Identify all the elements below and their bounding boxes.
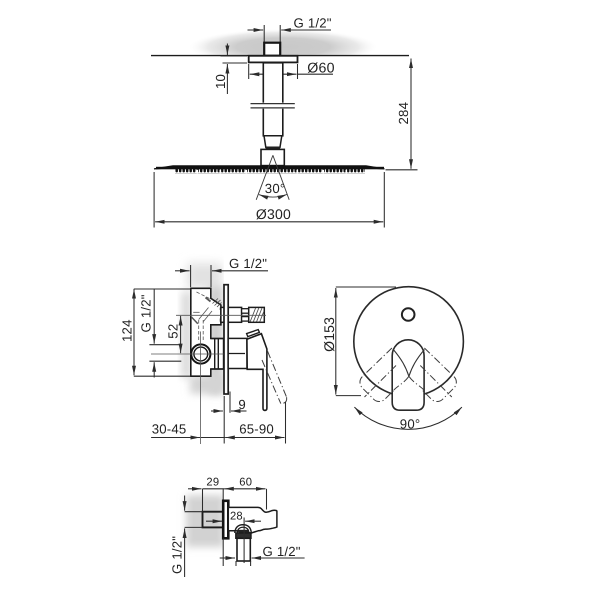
90° arc (354, 407, 462, 429)
small circle (402, 308, 415, 321)
shower plate (154, 166, 385, 169)
svg-text:284: 284 (396, 102, 411, 125)
shaft (263, 63, 283, 136)
big circle (354, 287, 464, 397)
valve body (191, 288, 224, 376)
dim Ø300 (154, 172, 384, 228)
svg-text:124: 124 (120, 319, 135, 342)
svg-text:90°: 90° (400, 416, 421, 431)
cartridge through wall (211, 339, 224, 370)
dims 30-45 / 65-90 (151, 396, 285, 444)
svg-text:Ø153: Ø153 (321, 317, 337, 352)
holder arm + knob (228, 507, 277, 533)
supply pipe (203, 512, 224, 528)
svg-text:52: 52 (166, 324, 181, 339)
inlet circle (191, 344, 210, 363)
boss notches (220, 308, 222, 311)
lever tab (247, 330, 260, 337)
collar lines (251, 103, 295, 105)
spray cone (256, 155, 289, 200)
dashed lever (open position) (262, 351, 287, 404)
svg-text:Ø300: Ø300 (256, 206, 291, 222)
top pipe (221, 307, 242, 322)
dim G 1/2 bottom (220, 538, 305, 566)
dim G 1/2 left (149, 289, 181, 378)
dim 9 (211, 392, 247, 413)
dims 29 / 60 (188, 489, 267, 512)
wall gray band (182, 263, 224, 394)
flange (249, 56, 298, 63)
inner solid arcs of handle (393, 350, 424, 377)
dim Ø60 (249, 64, 333, 79)
svg-text:G 1/2": G 1/2" (263, 544, 301, 559)
dashed rotated handle right (409, 348, 456, 402)
dim Ø153 (336, 287, 396, 396)
dashed rotated handle left (360, 348, 409, 402)
trim plate (224, 285, 228, 394)
fitting square (264, 43, 280, 56)
dim 284 (386, 59, 418, 170)
nut rect (236, 533, 251, 538)
dim 52 (180, 316, 182, 353)
thread hatch (250, 308, 264, 322)
axis line top port (176, 314, 266, 316)
axis line inlet (151, 353, 224, 355)
taper connector (264, 136, 282, 148)
dim G 1/2 left (185, 496, 203, 578)
shaft break gap (255, 103, 291, 109)
svg-text:9: 9 (238, 397, 246, 412)
dim 28 (206, 518, 261, 564)
lever hub + grip (247, 334, 267, 411)
svg-text:65-90: 65-90 (239, 421, 274, 436)
svg-text:10: 10 (213, 74, 228, 89)
axis vertical inlet (200, 332, 202, 445)
dome nut (235, 525, 252, 533)
boss chamfer hatch (213, 299, 222, 308)
svg-text:G 1/2": G 1/2" (294, 16, 332, 31)
outlet cylinder (237, 538, 250, 561)
svg-text:Ø60: Ø60 (307, 61, 334, 77)
internal passages (192, 292, 213, 342)
svg-text:29: 29 (206, 476, 219, 488)
dim 124 (134, 289, 191, 376)
svg-text:G 1/2": G 1/2" (229, 256, 267, 271)
ball housing (261, 149, 284, 165)
dim 10 (221, 44, 248, 95)
dark band (266, 147, 281, 149)
G 1/2 dim top (248, 25, 332, 42)
wall plate (223, 501, 228, 539)
svg-text:G 1/2": G 1/2" (169, 536, 184, 574)
wall gray band (186, 495, 224, 547)
handle sleeve (228, 338, 247, 368)
ceiling line (151, 55, 409, 57)
ceiling gray band (189, 29, 377, 65)
svg-text:30-45: 30-45 (152, 421, 187, 436)
svg-text:60: 60 (239, 476, 252, 488)
svg-text:G 1/2": G 1/2" (139, 294, 154, 332)
svg-text:30°: 30° (265, 181, 286, 196)
svg-text:28: 28 (230, 510, 243, 522)
G 1/2 dim top (175, 265, 268, 287)
solid handle front (392, 340, 424, 410)
